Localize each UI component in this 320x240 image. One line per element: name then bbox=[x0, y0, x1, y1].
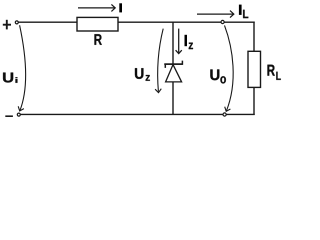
label Ui bbox=[3, 73, 17, 83]
wire right vertical lower bbox=[253, 87, 255, 115]
wire zener branch upper bbox=[172, 22, 174, 64]
wire top-left segment bbox=[18, 21, 77, 23]
wire bottom bbox=[21, 113, 255, 115]
voltage arrow Uz (curved) bbox=[155, 29, 163, 93]
label Uo bbox=[210, 69, 226, 83]
label Iz bbox=[185, 35, 193, 49]
current arrow Iz bbox=[176, 29, 182, 54]
minus sign bbox=[5, 115, 13, 117]
label I bbox=[119, 3, 122, 12]
current arrow I bbox=[78, 4, 115, 11]
zener diode cathode bar (Z shape) bbox=[165, 61, 182, 68]
zener diode triangle bbox=[166, 65, 182, 82]
resistor RL bbox=[248, 51, 261, 87]
label Uz bbox=[135, 68, 150, 81]
voltage arrow Ui (curved) bbox=[18, 25, 25, 111]
wire right vertical upper bbox=[253, 22, 255, 52]
wire zener branch lower bbox=[172, 82, 174, 115]
resistor R label bbox=[94, 34, 101, 45]
resistor RL label bbox=[267, 65, 280, 80]
resistor R bbox=[77, 17, 118, 31]
current arrow IL bbox=[197, 11, 234, 18]
label IL bbox=[239, 5, 248, 19]
node circle bottom bbox=[223, 113, 226, 116]
plus sign bbox=[3, 20, 11, 30]
node circle top (output node) bbox=[221, 20, 224, 23]
terminal circle top-left bbox=[15, 21, 18, 24]
wire top-middle segment (resistor R to top-right corner) bbox=[118, 21, 255, 23]
terminal circle bottom-left bbox=[17, 113, 20, 116]
voltage arrow Uo (curved) bbox=[225, 25, 234, 111]
